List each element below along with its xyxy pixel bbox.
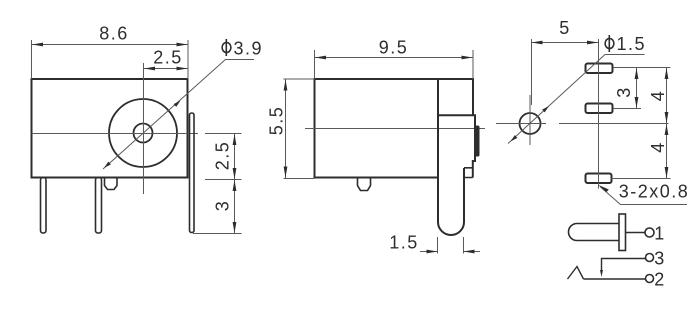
pin contact bar	[619, 214, 626, 251]
dim 2.5 right extension top	[205, 133, 242, 135]
left leg pin	[41, 178, 47, 234]
slot pad 1	[586, 64, 613, 74]
label 3-2x0.8 leader	[600, 187, 687, 205]
vertical centerline	[143, 63, 145, 194]
dim 3 extension top (shared with 4)	[613, 67, 671, 69]
dim line vertical right	[234, 134, 236, 234]
dim 9.5 arrows	[315, 56, 473, 60]
dim 2.5/3 shared extension middle	[205, 179, 242, 181]
dim 9.5 extension right	[472, 50, 474, 79]
center pin symbol (capsule)	[569, 224, 620, 241]
svg-text:2: 2	[654, 270, 666, 290]
svg-text:1.5: 1.5	[617, 34, 647, 54]
dim 1.5 extension left	[437, 237, 439, 254]
svg-text:8.6: 8.6	[99, 24, 129, 44]
wire to terminal 1	[626, 232, 646, 234]
svg-text:3: 3	[213, 200, 233, 212]
long horizontal centerline	[559, 123, 669, 125]
dim 4 extension bottom	[612, 178, 671, 180]
dia 1.5 leader underline	[605, 54, 645, 56]
dim 5.5 line	[285, 79, 287, 178]
dim 3 extension bottom	[193, 233, 242, 235]
dim 2.5 top line	[144, 68, 189, 70]
dia 1.5 label phi symbol	[605, 35, 614, 52]
dim 8.6 extension left	[31, 40, 33, 79]
dim 1.5 arrows	[427, 250, 475, 254]
terminal circle 3	[646, 254, 654, 262]
terminal circle 2	[646, 275, 654, 283]
svg-text:2.5: 2.5	[153, 48, 183, 68]
svg-text:1: 1	[654, 224, 666, 244]
dim 3 line	[636, 68, 638, 109]
round mounting leg (U shape)	[438, 168, 464, 235]
dim 1.5 line left part	[420, 251, 438, 253]
dim 4 lower arrows	[665, 124, 669, 178]
svg-text:4: 4	[648, 141, 668, 153]
svg-text:3: 3	[614, 86, 634, 98]
dim 5 arrows	[532, 41, 599, 45]
dia 1.5 arrow lower	[511, 135, 518, 141]
dim 3 arrows	[635, 68, 639, 108]
barrel outer circle	[109, 99, 177, 167]
svg-text:1.5: 1.5	[389, 233, 419, 253]
dim 8.6 extension right	[187, 40, 189, 79]
spring contact zigzag	[568, 267, 584, 280]
dim 2.5 right arrows	[233, 134, 237, 179]
dim 5.5 arrows	[284, 80, 288, 178]
svg-text:5.5: 5.5	[267, 106, 287, 136]
dia 3.9 arrow upper	[174, 101, 181, 107]
dia 1.5 leader diagonal	[508, 55, 605, 144]
slot pad 3	[586, 174, 612, 184]
pin circle	[520, 113, 541, 134]
svg-text:3: 3	[654, 249, 666, 269]
front housing notch lines	[464, 168, 473, 178]
dia 3.9 leader underline	[226, 59, 254, 61]
side bump under body	[358, 178, 371, 191]
svg-text:3.9: 3.9	[234, 39, 264, 59]
side body outline	[315, 79, 439, 178]
wire to terminal 2	[584, 278, 646, 280]
dim 8.6 arrows	[32, 43, 188, 47]
label 3-2x0.8 arrow	[599, 185, 609, 192]
dim 3 extension bottom	[613, 108, 641, 110]
svg-text:3-2x0.8: 3-2x0.8	[619, 182, 690, 202]
dim 5.5 extension bottom	[284, 178, 315, 180]
dim 1.5 line right part	[464, 251, 481, 253]
side centerline	[305, 128, 485, 130]
center pin circle	[134, 124, 153, 143]
dim 4 line	[666, 68, 668, 179]
dia 3.9 leader diagonal	[103, 59, 226, 169]
svg-text:4: 4	[648, 90, 668, 102]
pin circle horizontal centerline	[496, 123, 546, 125]
horizontal centerline	[32, 133, 199, 135]
slot pad 2	[586, 104, 613, 114]
right flat solder lug	[190, 113, 195, 233]
dim 2.5 top arrows	[144, 67, 188, 71]
dim 4 upper arrows	[665, 68, 669, 123]
dim 9.5 line	[315, 57, 474, 59]
small locating bump under body	[105, 178, 118, 190]
dim 1.5 extension right	[463, 237, 465, 254]
dia 1.5 arrow upper	[542, 106, 549, 112]
contact bar (dark)	[475, 126, 479, 157]
dia 3.9 label phi symbol	[222, 39, 231, 56]
front housing upper outline	[438, 79, 475, 178]
terminal circle 1	[645, 228, 654, 237]
switch branch wire	[602, 259, 646, 274]
svg-text:5: 5	[559, 18, 571, 38]
dim 5 extension left	[531, 39, 533, 105]
svg-text:2.5: 2.5	[213, 141, 233, 171]
dim 3 right arrows	[233, 180, 237, 233]
dia 3.9 arrow lower	[104, 162, 111, 168]
pads vertical line	[598, 39, 600, 189]
switch branch arrow	[600, 270, 603, 277]
middle leg pin	[96, 178, 102, 234]
dim 5 line	[532, 42, 599, 44]
svg-text:9.5: 9.5	[379, 38, 409, 58]
dim 8.6 line	[32, 44, 189, 46]
dim 9.5 extension left	[314, 50, 316, 79]
jack body front outline	[32, 79, 188, 178]
divider line body/front	[437, 79, 439, 178]
pin circle vertical centerline	[529, 95, 531, 145]
dim 5.5 extension top	[284, 78, 315, 80]
